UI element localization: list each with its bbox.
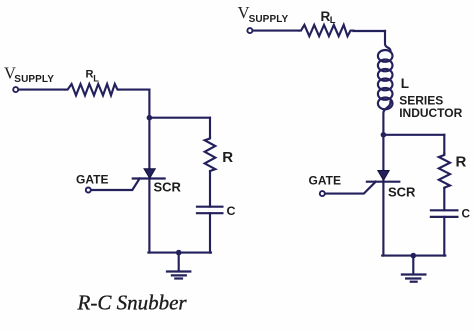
svg-text:R: R <box>222 149 233 166</box>
svg-text:L: L <box>93 74 99 84</box>
svg-text:L: L <box>330 15 336 26</box>
svg-text:GATE: GATE <box>309 174 341 188</box>
svg-text:SCR: SCR <box>388 185 416 200</box>
svg-text:C: C <box>227 204 236 218</box>
svg-text:SCR: SCR <box>154 180 182 195</box>
svg-text:INDUCTOR: INDUCTOR <box>399 106 462 120</box>
svg-text:L: L <box>401 76 409 91</box>
svg-text:C: C <box>462 206 471 220</box>
svg-text:SUPPLY: SUPPLY <box>249 14 289 25</box>
svg-text:GATE: GATE <box>76 172 108 186</box>
svg-text:R: R <box>86 69 94 81</box>
svg-text:R-C Snubber: R-C Snubber <box>77 291 188 315</box>
svg-text:SUPPLY: SUPPLY <box>14 74 54 85</box>
svg-text:R: R <box>456 153 467 170</box>
